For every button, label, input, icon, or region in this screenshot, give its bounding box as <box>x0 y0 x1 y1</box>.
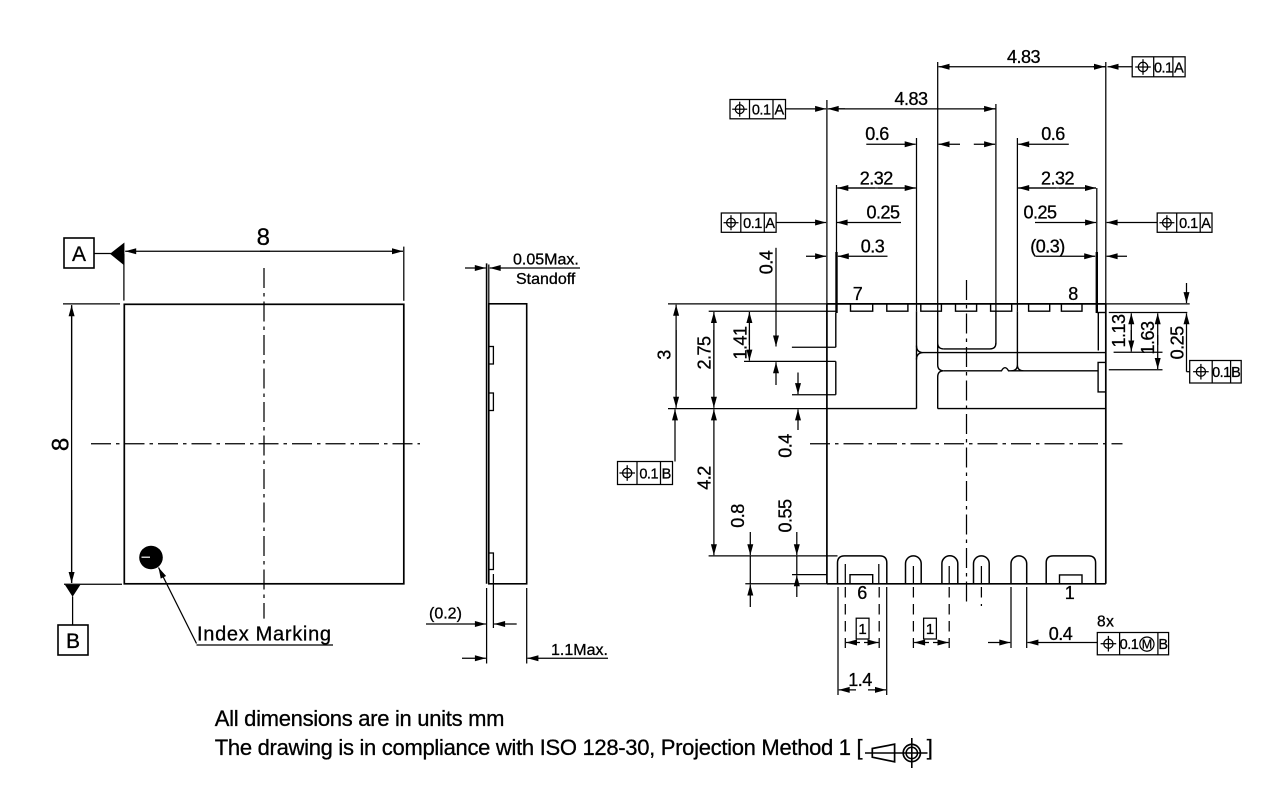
svg-text:8: 8 <box>257 224 270 251</box>
svg-text:0.05Max.: 0.05Max. <box>513 252 579 269</box>
bottom view: package right edge <box>1105 62 1107 584</box>
svg-text:1.41: 1.41 <box>731 326 751 360</box>
dimension 4.83 upper <box>939 47 1106 67</box>
side view: lead frame face line <box>487 263 489 583</box>
svg-text:7: 7 <box>853 284 863 304</box>
top edge tab 6 <box>1029 304 1050 311</box>
top edge tab 7 <box>1061 304 1082 311</box>
svg-text:2.32: 2.32 <box>1041 168 1075 188</box>
pin 7 corner tab edge (thick double line) <box>835 185 838 347</box>
side view: lead tab middle <box>489 393 494 411</box>
svg-text:1.63: 1.63 <box>1138 321 1158 355</box>
feature control frame 0.1 A (left, to package edge) <box>730 100 826 119</box>
svg-text:0.1: 0.1 <box>1212 365 1231 381</box>
pin 6 pad <box>838 556 887 584</box>
pin 4 center hidden edge <box>948 566 950 584</box>
gate trace bottom boundary with crossing bump <box>944 368 1099 371</box>
svg-text:0.1: 0.1 <box>752 103 771 119</box>
dimension 0.3 left <box>806 236 888 256</box>
source pad left profile steps <box>744 347 836 394</box>
gate trace top boundary with S-fillets <box>917 346 1106 360</box>
feature control frame 0.1 A (top right) <box>1108 57 1186 77</box>
svg-text:A: A <box>1201 216 1211 232</box>
svg-text:6: 6 <box>857 583 867 603</box>
pins top extension line <box>709 555 838 557</box>
svg-text:0.1: 0.1 <box>1120 637 1139 653</box>
svg-text:4.83: 4.83 <box>894 89 928 109</box>
dimension 1.13 (right) <box>1109 313 1163 352</box>
dimension 0.25 left <box>837 203 901 223</box>
8x label <box>1097 614 1114 631</box>
svg-text:1.13: 1.13 <box>1109 314 1129 348</box>
datum A filled triangle <box>110 243 124 301</box>
top edge tab 2 <box>887 304 908 311</box>
svg-text:0.1: 0.1 <box>1179 216 1198 232</box>
svg-text:B: B <box>662 467 672 483</box>
right pad edge tab <box>1098 362 1106 392</box>
bottom view: package top edge with extensions <box>668 303 1190 305</box>
svg-text:0.1: 0.1 <box>1154 60 1173 76</box>
svg-text:B: B <box>1158 637 1168 653</box>
feature control frame 0.1 M B (bottom) <box>1097 633 1168 655</box>
side view: package body rectangle <box>489 304 527 584</box>
top view vertical center line <box>263 268 265 619</box>
top edge tab 4 <box>956 304 977 311</box>
svg-text:0.6: 0.6 <box>1041 124 1065 144</box>
svg-text:All dimensions are in units mm: All dimensions are in units mm <box>215 706 504 731</box>
svg-text:0.1: 0.1 <box>639 467 658 483</box>
svg-text:1: 1 <box>926 621 934 638</box>
svg-text:0.25: 0.25 <box>1167 326 1187 360</box>
pin 2 pad <box>1011 556 1027 584</box>
svg-text:A: A <box>765 216 775 232</box>
svg-text:0.25: 0.25 <box>1023 203 1057 223</box>
gate pad right vertical <box>995 104 997 344</box>
slot left edge (pad edge) <box>916 138 918 409</box>
dimension 0.6 left <box>865 124 960 144</box>
pin 6 window top extension line <box>792 574 827 576</box>
pin 8 corner tab edge (thick double line) <box>1097 188 1099 351</box>
pin number 1 <box>1065 583 1075 603</box>
dimension 2.32 right <box>1018 168 1096 188</box>
pin number 7 <box>853 284 863 304</box>
bottom view horizontal center line <box>810 443 1123 445</box>
svg-text:0.4: 0.4 <box>757 250 777 274</box>
top view horizontal center line <box>91 443 420 445</box>
svg-text:B: B <box>66 630 80 653</box>
pin number 6 <box>857 583 867 603</box>
pin 5 pad <box>906 556 922 584</box>
svg-text:0.1: 0.1 <box>743 216 762 232</box>
svg-text:4.83: 4.83 <box>1007 47 1041 67</box>
dimension 3 (left) <box>655 305 677 408</box>
top edge tab 3 <box>921 304 942 311</box>
pin 3 pad <box>974 556 990 584</box>
svg-text:4.2: 4.2 <box>695 466 715 490</box>
svg-text:]: ] <box>927 735 933 760</box>
dimension 0.4 left (tab to pad bottom) <box>775 373 798 458</box>
pin 3 center hidden edge <box>980 566 982 606</box>
top edge tab 5 <box>991 304 1012 311</box>
dimension 1.4 (pin 6 width) <box>838 587 887 695</box>
svg-text:A: A <box>72 243 86 266</box>
gate pad bottom line <box>944 343 996 349</box>
datum A box <box>64 238 111 268</box>
index marking dot <box>139 546 163 570</box>
bottom view: package bottom edge <box>745 583 1106 585</box>
pin 1 window <box>1060 575 1083 584</box>
svg-text:0.4: 0.4 <box>1049 624 1073 644</box>
dimension (0.3) right <box>1030 236 1127 256</box>
boxed dimension 1 (pin 6 area) <box>845 587 879 648</box>
svg-text:Index Marking: Index Marking <box>197 624 332 646</box>
dimension 0.05Max standoff <box>465 252 580 289</box>
feature control frame 0.1 A (right mid) <box>1107 213 1212 232</box>
svg-text:A: A <box>774 103 784 119</box>
pin 8 tab bottom and right extension <box>1097 312 1188 314</box>
svg-text:B: B <box>1231 365 1241 381</box>
pin 5 center hidden edge <box>912 566 914 584</box>
dimension 0.55 (bottom left) <box>776 499 797 597</box>
pin 7 tab bottom and left pad top extension <box>709 310 837 312</box>
dimension 0.4 (pin 2 width) <box>988 587 1097 648</box>
dimension 0.25 right <box>1023 203 1096 223</box>
dimension 0.6 right <box>974 124 1069 144</box>
svg-text:3: 3 <box>655 350 675 360</box>
dimension 1.1Max body thickness <box>462 588 608 664</box>
svg-text:1: 1 <box>1065 583 1075 603</box>
index marking leader and label <box>159 568 334 646</box>
note line 2 with projection symbol <box>215 735 933 768</box>
svg-text:1.1Max.: 1.1Max. <box>551 642 608 659</box>
gate region left vertical with fillets <box>938 62 944 409</box>
side view: lead tab upper <box>489 347 494 365</box>
svg-text:Standoff: Standoff <box>516 271 576 288</box>
dimension 8 vertical (top view height) <box>47 304 122 584</box>
svg-text:(0.2): (0.2) <box>429 606 462 623</box>
top view: package body outline (8x8 square) <box>124 304 404 584</box>
svg-text:The drawing is in compliance w: The drawing is in compliance with ISO 12… <box>215 735 863 760</box>
dimension 1.63 (right) <box>1109 313 1163 370</box>
pin 6 window <box>850 575 873 584</box>
svg-text:2.32: 2.32 <box>860 168 894 188</box>
svg-text:0.4: 0.4 <box>775 434 795 458</box>
svg-text:0.3: 0.3 <box>861 236 885 256</box>
datum B box <box>58 625 88 655</box>
svg-text:1: 1 <box>858 621 866 638</box>
dimension 0.4 top left (edge notch) <box>757 248 777 385</box>
dimension 0.8 (bottom left) <box>728 504 750 607</box>
feature control frame 0.1 B (left) <box>618 409 676 484</box>
boxed dimension 1 (pins 4-5 pitch) <box>913 587 949 648</box>
svg-text:2.75: 2.75 <box>695 336 715 370</box>
pin 6 inner hidden edges <box>845 564 879 584</box>
bottom view vertical center line <box>966 280 968 603</box>
note line 1 <box>215 706 504 731</box>
dimension 4.2 (left) <box>695 409 715 555</box>
svg-text:0.55: 0.55 <box>776 499 796 533</box>
svg-text:0.6: 0.6 <box>865 124 889 144</box>
top edge tab 1 <box>851 304 873 311</box>
svg-text:8: 8 <box>1068 284 1078 304</box>
pin number 8 <box>1068 284 1078 304</box>
feature control frame 0.1 A (left mid) <box>721 213 826 232</box>
source pad bottom edge with slot opening <box>668 408 1106 410</box>
bottom view: package left edge <box>826 100 828 584</box>
svg-text:8: 8 <box>47 438 74 451</box>
dimension 2.32 left <box>837 168 915 188</box>
datum B filled triangle <box>65 585 81 625</box>
svg-text:1.4: 1.4 <box>848 670 872 690</box>
svg-text:A: A <box>1174 60 1184 76</box>
dimension 2.75 (left) <box>695 312 715 408</box>
dimension 4.83 lower <box>828 89 996 109</box>
dimension 1.41 (left) <box>731 312 751 361</box>
slot right vertical with fillets <box>1011 138 1023 371</box>
svg-text:(0.3): (0.3) <box>1030 236 1065 256</box>
svg-text:8x: 8x <box>1097 614 1114 631</box>
side view: lead tab lower <box>489 553 494 570</box>
pin 1 pad <box>1046 556 1095 584</box>
dimension 0.25 right vertical <box>1167 283 1189 372</box>
dimension (0.2) lead thickness <box>426 574 517 664</box>
svg-text:0.8: 0.8 <box>728 504 748 528</box>
feature control frame 0.1 B (right) <box>1190 361 1242 384</box>
dimension 8 horizontal (top view width) <box>125 224 404 301</box>
pin 4 pad <box>942 556 958 584</box>
svg-text:M: M <box>1142 638 1152 652</box>
svg-text:0.25: 0.25 <box>866 203 900 223</box>
